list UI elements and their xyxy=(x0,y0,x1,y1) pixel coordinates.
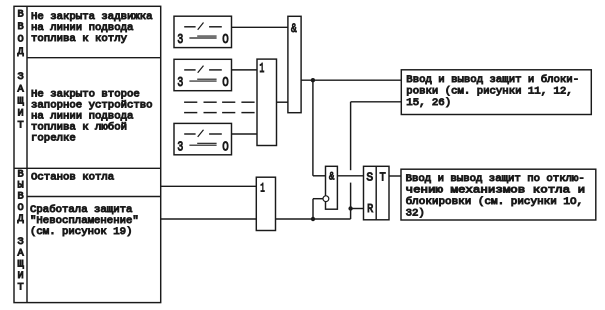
svg-text:O: O xyxy=(222,75,229,91)
svg-text:T: T xyxy=(380,170,386,184)
svg-text:(см. рисунок 19): (см. рисунок 19) xyxy=(30,226,132,238)
svg-text:1: 1 xyxy=(260,181,265,196)
svg-text:Ввод и вывод защит и блоки-: Ввод и вывод защит и блоки- xyxy=(406,73,579,86)
svg-text:Щ: Щ xyxy=(18,97,24,108)
svg-text:И: И xyxy=(18,109,24,120)
svg-text:чению механизмов котла и: чению механизмов котла и xyxy=(406,185,585,196)
svg-text:3: 3 xyxy=(177,32,183,48)
svg-text:Д: Д xyxy=(18,214,24,225)
svg-text:O: O xyxy=(222,139,229,155)
svg-text:на линии подвода: на линии подвода xyxy=(31,111,133,122)
svg-text:1: 1 xyxy=(259,61,264,77)
svg-text:32): 32) xyxy=(406,207,425,219)
svg-text:В: В xyxy=(18,169,24,180)
svg-text:Сработала защита: Сработала защита xyxy=(30,203,132,216)
svg-text:блокировки (см. рисунки 1О,: блокировки (см. рисунки 1О, xyxy=(406,195,583,208)
svg-text:R: R xyxy=(367,202,373,216)
svg-text:&: & xyxy=(291,21,297,36)
svg-text:В: В xyxy=(18,10,24,21)
svg-text:З: З xyxy=(18,72,24,83)
svg-text:А: А xyxy=(18,85,24,96)
svg-text:&: & xyxy=(329,172,335,184)
svg-text:O: O xyxy=(222,32,229,48)
svg-text:Т: Т xyxy=(18,282,24,293)
svg-text:15, 26): 15, 26) xyxy=(406,97,451,109)
svg-text:топлива к любой: топлива к любой xyxy=(31,120,127,133)
svg-text:А: А xyxy=(18,249,24,260)
svg-text:Ы: Ы xyxy=(18,181,24,192)
svg-text:Ввод и вывод защит по отклю-: Ввод и вывод защит по отклю- xyxy=(406,174,585,185)
svg-text:В: В xyxy=(18,192,24,203)
svg-text:3: 3 xyxy=(177,139,183,155)
svg-text:Останов котла: Останов котла xyxy=(31,172,114,183)
svg-text:Д: Д xyxy=(18,47,24,58)
svg-text:горелке: горелке xyxy=(31,133,76,144)
svg-text:И: И xyxy=(18,271,24,282)
svg-text:ровки (см. рисунки 11, 12,: ровки (см. рисунки 11, 12, xyxy=(406,85,572,97)
svg-text:"Невоспламенение": "Невоспламенение" xyxy=(30,215,139,227)
svg-text:запорное устройство: запорное устройство xyxy=(31,99,153,111)
svg-text:О: О xyxy=(18,35,24,46)
svg-text:З: З xyxy=(18,237,24,248)
svg-text:Щ: Щ xyxy=(18,260,24,271)
svg-text:S: S xyxy=(366,170,373,184)
svg-text:О: О xyxy=(18,203,24,214)
svg-text:на линии подвода: на линии подвода xyxy=(31,23,133,34)
svg-text:топлива к котлу: топлива к котлу xyxy=(31,34,127,45)
svg-text:Т: Т xyxy=(18,121,24,132)
svg-text:3: 3 xyxy=(177,75,183,91)
svg-text:Не закрыта задвижка: Не закрыта задвижка xyxy=(31,12,153,23)
svg-text:Не закрыто второе: Не закрыто второе xyxy=(31,89,140,100)
svg-text:В: В xyxy=(18,22,24,33)
